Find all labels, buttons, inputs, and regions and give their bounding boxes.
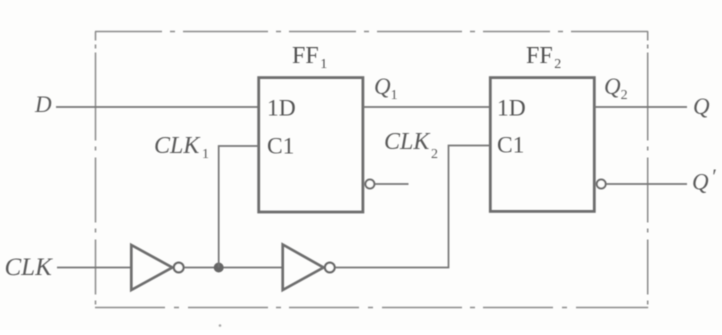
wire stub from FF1 inverted output <box>375 183 409 185</box>
inverter 1 bubble <box>174 263 184 273</box>
enclosure border top edge (dash-dot) <box>95 31 648 33</box>
svg-text:Q: Q <box>692 170 709 195</box>
svg-text:CLK: CLK <box>5 254 54 281</box>
svg-text:Q1: Q1 <box>374 74 398 103</box>
svg-text:FF2: FF2 <box>526 43 561 72</box>
flip-flop FF1 <box>259 78 363 212</box>
wire CLK1 to C1 of FF1 <box>219 146 259 268</box>
inverter 1 triangle <box>131 245 172 290</box>
svg-text:Q2: Q2 <box>604 74 628 103</box>
enclosure border right edge (dash-dot) <box>647 32 649 308</box>
svg-text:2: 2 <box>431 147 438 162</box>
enclosure border bottom edge (dash-dot) <box>95 307 648 309</box>
wire Q1: FF1 output to FF2 input <box>363 106 490 108</box>
svg-text:Q: Q <box>693 94 710 119</box>
inverter 2 bubble <box>325 263 335 273</box>
svg-text:CLK: CLK <box>154 133 201 159</box>
svg-text:FF1: FF1 <box>292 43 327 72</box>
wire CLK input <box>57 267 131 269</box>
stray scan speck <box>219 324 222 327</box>
wire Q2: FF2 output to Q <box>595 106 688 108</box>
junction dot CLK1 <box>214 263 224 273</box>
svg-text:1: 1 <box>202 147 209 162</box>
svg-text:CLK: CLK <box>384 129 431 155</box>
svg-text:C1: C1 <box>267 133 294 159</box>
svg-text:1D: 1D <box>497 95 526 121</box>
inverter 2 triangle <box>283 245 324 291</box>
wire CLK2 to C1 of FF2 <box>335 146 490 268</box>
svg-text:′: ′ <box>711 165 716 189</box>
inverted output bubble of FF1 <box>365 180 374 189</box>
wire Q': FF2 inverted output to Q' <box>606 183 687 185</box>
wire inverter1 output to inverter2 input <box>184 267 282 269</box>
svg-text:C1: C1 <box>497 133 524 159</box>
svg-text:D: D <box>34 92 52 117</box>
svg-text:1D: 1D <box>267 95 296 121</box>
wire D input <box>56 106 258 108</box>
flip-flop FF2 <box>490 78 594 212</box>
enclosure border left edge (dash-dot) <box>95 32 97 308</box>
inverted output bubble of FF2 <box>597 180 606 189</box>
